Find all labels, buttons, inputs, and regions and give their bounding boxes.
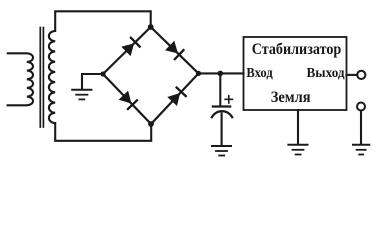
svg-text:Выход: Выход — [307, 65, 345, 80]
svg-text:Стабилизатор: Стабилизатор — [252, 40, 342, 58]
svg-text:Земля: Земля — [271, 89, 311, 106]
svg-text:Вход: Вход — [246, 65, 272, 80]
